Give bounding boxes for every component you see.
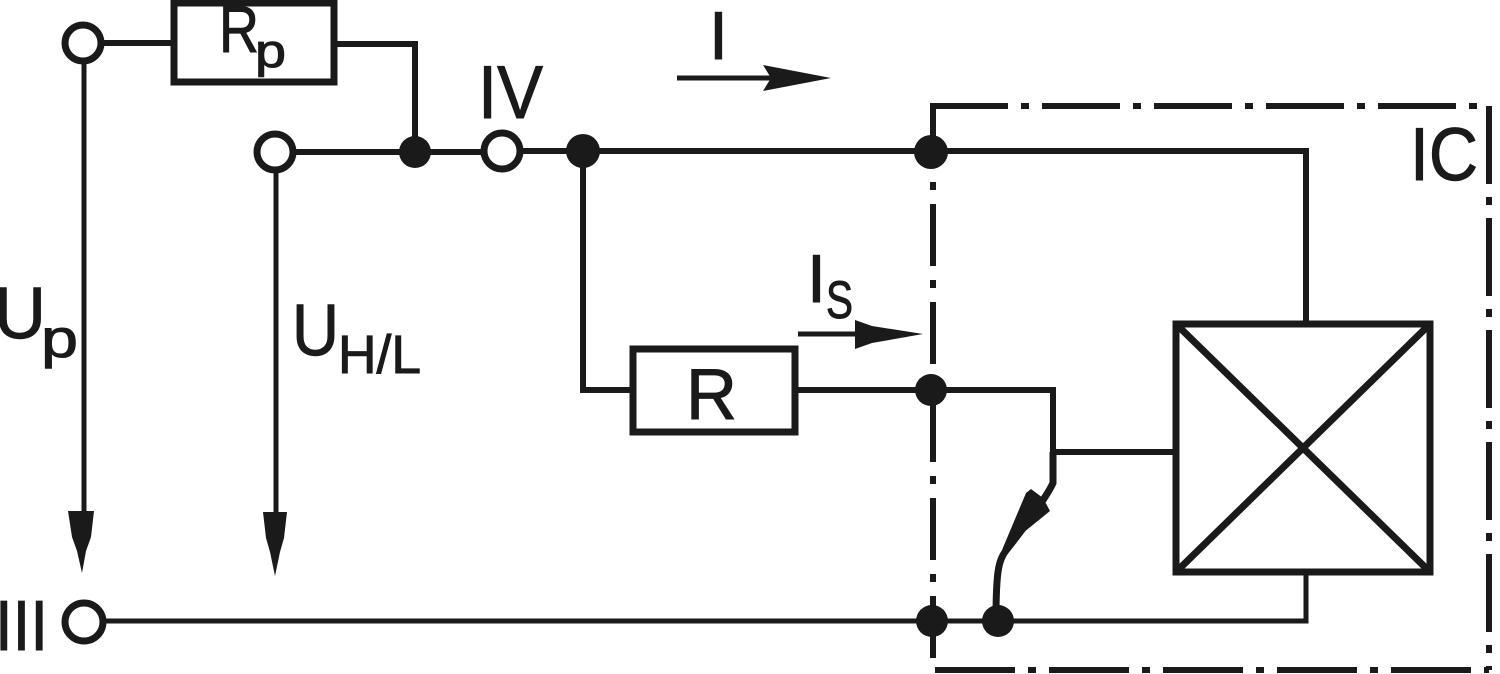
svg-text:U: U	[0, 273, 46, 354]
svg-text:R: R	[686, 355, 737, 435]
svg-text:S: S	[826, 271, 853, 330]
svg-text:I: I	[807, 241, 826, 317]
svg-text:p: p	[41, 309, 78, 369]
svg-text:p: p	[255, 24, 286, 77]
svg-text:III: III	[0, 587, 48, 666]
svg-text:H/L: H/L	[338, 325, 421, 385]
svg-text:I: I	[709, 0, 728, 74]
svg-text:R: R	[219, 0, 259, 66]
svg-text:U: U	[292, 290, 339, 371]
svg-text:IV: IV	[478, 50, 543, 134]
svg-text:IC: IC	[1410, 112, 1478, 196]
